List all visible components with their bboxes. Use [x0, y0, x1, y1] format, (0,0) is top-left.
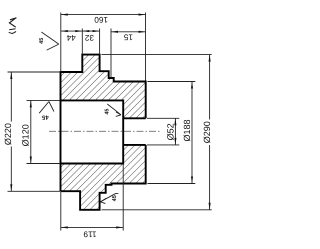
svg-text:Ø52: Ø52 — [165, 123, 175, 140]
dimension dia120 line — [30, 100, 32, 163]
chamfer note c leader — [107, 104, 121, 116]
dia220 top arrow — [10, 72, 12, 79]
svg-text:32: 32 — [84, 33, 94, 42]
dimension 119 line — [61, 226, 123, 228]
svg-text:45: 45 — [39, 38, 45, 44]
chamfer note a arrow legs — [41, 32, 58, 50]
dia290 top arrow — [209, 55, 211, 62]
surface finish symbol top-left — [9, 18, 16, 27]
dia52 top arrow — [174, 118, 176, 125]
cavity rectangle (web pocket) — [61, 100, 124, 163]
chamfer note d leader — [100, 194, 118, 204]
extension line x145.5 — [145, 13, 147, 81]
dia188 top arrow — [191, 82, 193, 89]
dim 160 left arrow — [61, 14, 68, 16]
small bore bottom edge — [123, 144, 146, 146]
svg-text:Ø220: Ø220 — [3, 123, 13, 145]
dia52 bottom arrow — [174, 138, 176, 145]
centerline axis — [49, 130, 162, 132]
hatch lower section region — [61, 145, 146, 210]
extension line x61 bottom — [60, 191, 62, 230]
hatch upper section region — [61, 55, 146, 119]
dia188 bottom arrow — [191, 177, 193, 184]
chamfer note b arrow legs — [39, 102, 54, 114]
svg-text:15: 15 — [123, 33, 133, 42]
extension lines dia220 — [8, 71, 61, 73]
dim 51 left arrow — [111, 31, 118, 33]
dimension dia188 line — [191, 82, 193, 184]
extension line x82.3 — [81, 29, 83, 55]
outline lower profile — [61, 145, 146, 210]
dim 44 right arrow — [75, 30, 82, 32]
svg-text:119: 119 — [83, 229, 96, 238]
dia290 bottom arrow — [209, 203, 211, 210]
svg-text:160: 160 — [94, 15, 108, 24]
extension line x99.6 — [99, 29, 101, 55]
dimension 160 line — [61, 14, 146, 16]
extension line x123 bottom — [122, 164, 124, 231]
dimension dia52 line — [174, 118, 176, 145]
dimension dia220 line — [10, 72, 12, 122]
dim 32 left arrow — [82, 30, 89, 32]
extension lines dia290 — [102, 54, 212, 56]
extension lines dia52 — [147, 117, 179, 119]
svg-text:Ø120: Ø120 — [21, 124, 31, 146]
dimension 44 line — [61, 30, 83, 32]
dimension dia290 line — [209, 55, 211, 120]
dia120 top arrow — [30, 100, 32, 107]
dia220 bottom arrow — [10, 184, 12, 191]
svg-text:45: 45 — [112, 195, 118, 201]
extension line left x61 top — [60, 13, 62, 73]
small bore top edge — [123, 117, 146, 119]
svg-text:45: 45 — [104, 109, 110, 115]
dim 119 left arrow — [61, 226, 68, 228]
dim 44 left arrow — [61, 30, 68, 32]
dim 32 right arrow — [93, 30, 100, 32]
svg-text:44: 44 — [66, 33, 76, 42]
dim 51 right arrow — [139, 31, 146, 33]
outline upper profile — [61, 55, 146, 192]
svg-text:45: 45 — [41, 114, 48, 121]
extension line x112 — [110, 29, 112, 78]
extension lines dia120 — [27, 99, 61, 101]
dia120 bottom arrow — [30, 157, 32, 164]
dimension 32 line — [82, 30, 99, 32]
dimension 51 line — [111, 31, 146, 33]
svg-text:Ø188: Ø188 — [182, 119, 192, 141]
dim 119 right arrow — [116, 226, 123, 228]
dim 160 right arrow — [139, 14, 146, 16]
svg-text:Ø290: Ø290 — [202, 121, 212, 143]
extension lines dia188 — [148, 81, 196, 83]
